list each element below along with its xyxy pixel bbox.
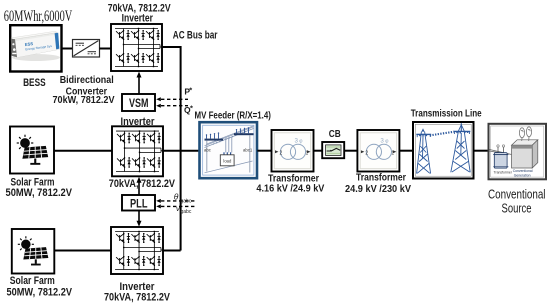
solar farm PV1 <box>10 127 54 174</box>
inverter U3 (solar inverter) <box>111 227 163 274</box>
svg-text:abc1: abc1 <box>243 148 253 153</box>
svg-text:Inverter: Inverter <box>122 12 154 24</box>
svg-text:2: 2 <box>280 150 283 156</box>
svg-text:gabc: gabc <box>181 198 192 204</box>
solar farm PV2 <box>12 229 55 274</box>
svg-text:2: 2 <box>365 150 368 156</box>
transformer T1 <box>272 130 314 172</box>
svg-text:Source: Source <box>502 202 532 216</box>
feeder drop lines <box>207 135 250 172</box>
svg-text:70kW, 7812.2V: 70kW, 7812.2V <box>53 95 115 106</box>
svg-text:Transformer: Transformer <box>356 173 406 184</box>
svg-text:MV Feeder (R/X=1.4): MV Feeder (R/X=1.4) <box>195 109 271 121</box>
transmission line block <box>413 122 474 179</box>
svg-text:BESS: BESS <box>23 77 45 89</box>
incoming line to plant <box>490 150 512 155</box>
svg-text:AC Bus bar: AC Bus bar <box>173 29 218 41</box>
svg-text:4.16 kV /24.9 kV: 4.16 kV /24.9 kV <box>256 184 324 195</box>
svg-text:Bidirectional: Bidirectional <box>60 75 114 86</box>
arrow PLL to inverter3 <box>138 211 140 222</box>
svg-text:Solar Farm: Solar Farm <box>10 275 55 287</box>
plant transformer <box>493 145 513 175</box>
svg-text:VSM: VSM <box>129 96 149 110</box>
conductor chain between towers <box>430 132 454 136</box>
feeder conductors diagonal <box>205 126 254 173</box>
svg-text:Generation: Generation <box>514 173 531 177</box>
svg-text:*: * <box>189 86 192 95</box>
wire transmission line to conventional source <box>474 150 489 152</box>
svg-text:Transmission Line: Transmission Line <box>411 108 482 120</box>
svg-text:load: load <box>223 158 232 163</box>
tower 1 <box>416 128 431 173</box>
svg-text:CB: CB <box>329 128 341 140</box>
svg-text:θ: θ <box>174 192 179 202</box>
wire transformer1 to CB <box>314 150 323 152</box>
wire inverter3 to bus <box>163 250 181 252</box>
VSM control block <box>122 94 155 111</box>
feeder left bus bar <box>205 139 224 141</box>
arrow PLL to inverter2 <box>138 182 140 196</box>
PLL control block <box>122 195 155 211</box>
tower 2 <box>451 123 471 172</box>
dashed signal v_gabc into PLL <box>161 205 196 207</box>
svg-text:*: * <box>190 103 193 112</box>
wire converter to inverter1 <box>100 48 112 50</box>
generator coils <box>519 127 531 141</box>
svg-text:Conventional: Conventional <box>488 187 546 201</box>
dashed signal theta_gabc into PLL <box>161 200 196 202</box>
dashed reference P* into VSM <box>161 98 188 100</box>
inverter U1 (BESS inverter) <box>111 24 162 71</box>
svg-text:Transformer: Transformer <box>494 170 513 174</box>
svg-text:70kVA, 7812.2V: 70kVA, 7812.2V <box>109 178 176 190</box>
svg-text:gabc: gabc <box>181 209 192 215</box>
bidirectional DC-DC converter <box>73 40 100 58</box>
wire solar1 to inverter2 <box>54 150 112 152</box>
generator cube <box>512 140 538 178</box>
wire feeder to transformer1 <box>257 150 271 152</box>
svg-text:abc: abc <box>204 148 212 153</box>
inverter U2 (solar inverter) <box>112 126 163 176</box>
arrow VSM to inverter1 <box>138 77 140 95</box>
svg-text:70kVA, 7812.2V: 70kVA, 7812.2V <box>104 292 171 304</box>
wire CB to transformer2 <box>344 150 357 152</box>
wire BESS to converter <box>62 48 73 50</box>
circuit breaker CB <box>322 142 344 158</box>
AC bus bar vertical <box>180 46 182 251</box>
dashed reference Q* into VSM <box>161 105 188 107</box>
svg-text:24.9 kV /230 kV: 24.9 kV /230 kV <box>345 184 411 195</box>
svg-text:PLL: PLL <box>130 196 148 210</box>
wire solar2 to inverter3 <box>54 250 111 252</box>
wire inverter1 output to bus <box>162 46 181 48</box>
feeder load block <box>224 152 231 155</box>
conventional source block <box>489 124 547 180</box>
svg-text:3: 3 <box>295 138 299 145</box>
feeder right bus bar <box>234 133 254 135</box>
BESS container box <box>10 25 61 71</box>
svg-text:3: 3 <box>380 138 384 145</box>
svg-text:50MW, 7812.2V: 50MW, 7812.2V <box>6 187 73 199</box>
wire transformer2 to transmission line <box>399 150 413 152</box>
svg-text:50MW, 7812.2V: 50MW, 7812.2V <box>7 287 73 299</box>
MV feeder block <box>200 122 258 178</box>
transformer T2 <box>357 130 399 172</box>
wire inverter2 to bus / feeder <box>163 150 200 152</box>
svg-text:60MWhr,6000V: 60MWhr,6000V <box>4 8 73 25</box>
